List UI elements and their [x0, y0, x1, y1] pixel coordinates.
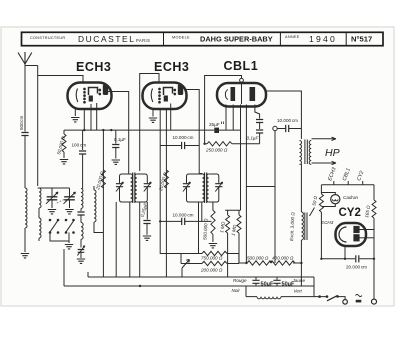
- IF transformer 2 left branch with trimmer: [187, 174, 203, 202]
- capacitor 25uF series: [214, 128, 219, 133]
- resistor 750.000 ohm: [181, 253, 202, 255]
- svg-text:25µF: 25µF: [209, 122, 220, 127]
- wire grid link top: [38, 187, 70, 189]
- svg-text:0,1µF: 0,1µF: [114, 137, 126, 142]
- svg-text:HP: HP: [325, 147, 340, 159]
- wire tube2 pin g: [159, 108, 161, 221]
- wire bus1 horizontal: [84, 129, 240, 131]
- wire tube1 plate out: [107, 92, 129, 175]
- wire transformer primary bottom to choke: [300, 164, 302, 212]
- wire bus bottom 3: [246, 286, 257, 297]
- padder coil: [81, 189, 83, 209]
- IF transformer 2 primary coil: [202, 174, 204, 202]
- wire IFT2 left drop: [198, 202, 200, 254]
- mains plug pin 2: [372, 299, 377, 304]
- capacitor 50uF b: [276, 277, 278, 280]
- wire tube1 pin anode: [96, 103, 98, 130]
- resistor 165 ohm: [372, 200, 376, 218]
- svg-text:1940: 1940: [309, 34, 337, 44]
- choke excitation 3000 ohm: [301, 212, 303, 240]
- wire long vertical C: [165, 130, 167, 277]
- svg-text:DAHG SUPER-BABY: DAHG SUPER-BABY: [200, 34, 273, 43]
- IF transformer 1 left branch with trimmer: [120, 174, 131, 202]
- wire CBL1 pin1: [225, 105, 227, 131]
- pickup connector: [273, 126, 277, 130]
- svg-text:Cadran: Cadran: [343, 195, 359, 200]
- svg-text:Vert: Vert: [294, 289, 303, 294]
- resistor 50 ohm: [319, 194, 323, 212]
- capacitor 10.000cm osc top: [160, 145, 199, 147]
- IF transformer 2 secondary coil: [207, 174, 209, 202]
- wire heater bus: [321, 181, 374, 185]
- wire tube1 pin g3: [90, 104, 92, 130]
- svg-text:10.000cm: 10.000cm: [173, 135, 194, 140]
- svg-text:500.000 Ω: 500.000 Ω: [247, 256, 269, 261]
- svg-text:Jaune: Jaune: [292, 278, 306, 283]
- svg-text:PARIS: PARIS: [136, 38, 150, 43]
- trimmer padder bottom: [80, 239, 82, 247]
- capacitor 0,25uF: [146, 202, 148, 220]
- wire 50k to bus: [64, 129, 84, 131]
- wire CBL1 plate to output transformer: [266, 91, 301, 139]
- resistor 50.000 ohm: [63, 130, 65, 134]
- tube ECH3 no2 envelope: [143, 83, 187, 110]
- capacitor 0,1uF right pair: [259, 116, 261, 119]
- svg-text:20.000cm: 20.000cm: [346, 265, 367, 270]
- svg-text:CBL1: CBL1: [224, 59, 259, 73]
- wire diagonal to heater bus: [310, 208, 315, 217]
- svg-text:500cm: 500cm: [19, 116, 24, 130]
- wire switch to ground: [68, 233, 70, 244]
- svg-text:MODELE: MODELE: [172, 36, 190, 40]
- svg-text:400.000 Ω: 400.000 Ω: [272, 256, 294, 261]
- wire HP arrow bottom: [312, 161, 337, 164]
- wire tube2 pin osc: [165, 108, 167, 130]
- svg-text:0,1µF: 0,1µF: [247, 136, 260, 141]
- svg-text:DUCASTEL: DUCASTEL: [78, 34, 135, 44]
- IF transformer 1 primary coil: [131, 174, 133, 202]
- wire choke bottom: [300, 240, 302, 263]
- svg-text:N°517: N°517: [351, 35, 372, 44]
- wire heater left drop: [320, 185, 322, 194]
- ground tube2 cathode: [149, 118, 157, 122]
- IF transformer 2 right branch with trimmer: [209, 174, 219, 202]
- wire tube1 pin cathode: [74, 108, 76, 116]
- gang link dashed: [57, 199, 65, 203]
- wire antenna to coil: [24, 136, 26, 189]
- capacitor 20.000cm: [356, 255, 359, 262]
- padder coil second section: [81, 223, 83, 240]
- wire CBL1 pin4: [245, 105, 247, 264]
- svg-text:10.000cm: 10.000cm: [173, 213, 194, 218]
- IF transformer 2 core: [205, 173, 207, 204]
- resistor 20.000 ohm right: [164, 170, 168, 188]
- resistor 500.000 ohm vertical: [211, 210, 215, 234]
- svg-text:200.000 Ω: 200.000 Ω: [200, 268, 223, 273]
- potentiometer chain 500.000 + 400.000: [239, 262, 247, 264]
- tube CY2 internals: [339, 227, 359, 243]
- svg-text:100cm: 100cm: [72, 143, 87, 148]
- wire bus bottom 1: [88, 276, 314, 278]
- wire detector link: [246, 186, 275, 188]
- ballast bobbin: [257, 297, 281, 299]
- ground resistor 500k: [209, 244, 217, 248]
- tube ECH3 no2 internals: [151, 85, 183, 103]
- variable capacitor 2: [69, 188, 71, 196]
- capacitor 100cm: [82, 130, 84, 150]
- output transformer core: [305, 140, 307, 165]
- potentiometer wiper arrow: [182, 260, 190, 269]
- mains AC symbol: [356, 294, 362, 296]
- wire HP arrow top: [312, 137, 337, 140]
- wire CY2 cathode down: [344, 246, 346, 259]
- wire long vertical A: [102, 130, 104, 277]
- wire tube1 pin g2: [83, 108, 85, 130]
- antenna: [18, 52, 32, 64]
- wire CBL1 pin5 to caps: [255, 105, 260, 117]
- resistor 200.000 ohm: [181, 254, 202, 264]
- svg-text:ECH3: ECH3: [321, 220, 334, 225]
- wire tube2 top cap: [140, 74, 159, 172]
- ground tube1 cathode: [71, 118, 79, 122]
- left tuning block : antenna coil: [25, 188, 27, 228]
- wire antenna lead: [24, 64, 26, 132]
- oscillator coil tall: [94, 190, 96, 222]
- resistor 250.000 ohm: [205, 143, 207, 145]
- wire IFT1 primary bottom: [129, 202, 131, 277]
- wire CY2 anode top: [359, 229, 374, 231]
- tube CBL1 grid top cap: [240, 78, 244, 82]
- capacitor 0,1uF left: [115, 130, 117, 143]
- tube CBL1 envelope: [217, 83, 266, 107]
- wire HT bus: [321, 258, 374, 260]
- output transformer primary: [300, 141, 302, 165]
- capacitor padder: [80, 209, 82, 212]
- wire bus2 right drop: [301, 263, 314, 297]
- svg-text:Rouge: Rouge: [233, 278, 247, 283]
- resistor 20.000 ohm left: [101, 170, 105, 188]
- svg-text:50µF: 50µF: [261, 282, 274, 288]
- wire IFT1 secondary bottom: [139, 202, 141, 277]
- capacitor 10.000cm pickup: [277, 128, 301, 130]
- capacitor 50uF a: [255, 277, 257, 280]
- wire CY2 anode bottom: [359, 237, 374, 239]
- wire long vertical B: [115, 202, 117, 277]
- node bus1 junction dots: [83, 129, 112, 131]
- capacitor antenna series 500cm: [21, 133, 28, 136]
- coil L2: [39, 188, 41, 208]
- wire bus bottom 2: [64, 285, 314, 287]
- dial lamp: [321, 193, 335, 207]
- resistor 1 Mohm b: [238, 210, 240, 215]
- ground antenna coil: [21, 254, 29, 258]
- wire CBL1 grid lead: [205, 76, 242, 144]
- svg-text:CY2: CY2: [339, 207, 361, 219]
- wire tube2 pin osc grid: [170, 104, 172, 131]
- wire switch common: [50, 233, 69, 242]
- wire antenna branch to grid line: [25, 65, 38, 67]
- output transformer secondary: [309, 141, 311, 165]
- wire IFT2 primary bottom to osc cap: [201, 202, 203, 221]
- capacitor 10.000cm osc bottom: [160, 220, 211, 222]
- tube ECH3 no1 envelope: [68, 83, 112, 110]
- IF transformer 1 right branch with trimmer: [137, 174, 147, 202]
- IF transformer 1 core: [133, 173, 135, 204]
- wire IFT2 secondary bottom to R500k: [212, 202, 214, 210]
- switch mains: [326, 295, 329, 298]
- IF transformer 1 secondary coil: [135, 174, 137, 202]
- wire CBL1 pin3 AVC: [240, 105, 242, 211]
- wire heater right drop: [373, 185, 375, 200]
- band switch: [50, 221, 74, 232]
- svg-text:ECH3: ECH3: [154, 60, 189, 74]
- header title box: [22, 32, 384, 45]
- wire CBL1 pin2: [232, 105, 234, 131]
- ground 0,1uF: [112, 160, 120, 164]
- wire tube1 top cap: [38, 66, 83, 187]
- svg-text:250.000 Ω: 250.000 Ω: [205, 148, 228, 153]
- svg-text:ECH3: ECH3: [76, 60, 111, 74]
- svg-text:CONSTRUCTEUR: CONSTRUCTEUR: [30, 36, 65, 40]
- svg-text:ANNEE: ANNEE: [285, 35, 300, 39]
- svg-text:750.000 Ω: 750.000 Ω: [201, 256, 223, 261]
- variable capacitor 1: [51, 188, 53, 196]
- svg-text:Noir: Noir: [232, 288, 241, 293]
- tube ECH3 no1 internals: [76, 85, 108, 103]
- svg-text:10.000cm: 10.000cm: [277, 118, 298, 123]
- tube CBL1 internals: [225, 82, 254, 104]
- wire AVC return L: [160, 221, 181, 253]
- mains plug pin 1: [343, 300, 348, 305]
- wire tube2 cathode: [152, 109, 154, 117]
- resistor 1 Mohm a: [225, 210, 240, 215]
- wire tube2 plate out: [186, 90, 202, 174]
- tube CY2 envelope: [336, 223, 367, 246]
- ground resistor 50k: [60, 160, 68, 164]
